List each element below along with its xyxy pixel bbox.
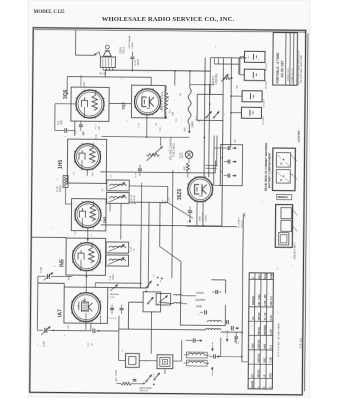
svg-text:200Ω: 200Ω [199,216,201,222]
svg-text:455 KC: 455 KC [257,369,260,377]
svg-text:C-15: C-15 [270,315,273,321]
svg-text:35Z5: 35Z5 [177,188,183,200]
svg-text:SW: SW [237,85,239,88]
svg-text:45 VOLT: 45 VOLT [266,62,268,71]
svg-text:PEAK: PEAK [264,272,267,279]
svg-text:C-16: C-16 [135,172,137,178]
svg-text:100 SIXTH AVE. NEW YORK: 100 SIXTH AVE. NEW YORK [300,55,303,83]
coil L3 [174,294,183,295]
svg-text:PORTABLE - 4 TUBE: PORTABLE - 4 TUBE [276,53,280,84]
svg-text:C-10: C-10 [131,246,133,252]
wire bus battery side [222,58,224,95]
svg-text:C-2A: C-2A [270,329,273,335]
plate cap arrow [94,52,99,56]
svg-text:540 - 1600: 540 - 1600 [258,294,261,306]
capacitor tank3 [226,320,228,324]
wire 1A7 area [94,283,96,288]
bottom right plug marks [234,336,238,338]
shield box IN5 [66,238,106,275]
capacitor tank2 [204,310,206,314]
alignment table [248,273,273,389]
resistor R-6 400 [186,163,189,172]
svg-text:+: + [247,56,249,60]
coil L5 [207,320,221,322]
svg-text:1400 KC: 1400 KC [257,339,260,349]
wire connector feeds [213,135,215,185]
cabinet drawing A [272,148,295,191]
capacitor on switch wire [133,378,137,380]
border frame [30,28,306,395]
volume pot arrow [146,146,162,161]
svg-text:OSC.: OSC. [263,357,266,363]
svg-text:OSC C-2: OSC C-2 [270,296,273,306]
shield box 1H5 [67,139,106,183]
speaker [103,52,111,57]
svg-text:PADDER: PADDER [264,325,267,335]
svg-text:C-14: C-14 [110,275,112,281]
wire T2 to right [129,185,167,187]
title block [273,33,298,86]
tube 3Q5 [76,90,104,118]
wire x222 down [222,121,223,226]
svg-text:1.5 VOLT: 1.5 VOLT [263,115,265,124]
svg-text:OSC: OSC [68,324,70,329]
wire left y284 [38,282,64,284]
safety control rheostat [223,77,231,80]
capacitor right stack [213,354,215,358]
tube 1N5 [75,202,101,228]
svg-text:IA7: IA7 [57,309,63,317]
wire x149 vertical [147,202,150,288]
battery B1 [244,51,265,62]
shield box V5 [131,85,165,118]
svg-text:LEAD: LEAD [83,81,86,87]
capacitor tank1 [215,290,217,294]
wire AVC to frame [32,236,67,238]
svg-text:C-2B: C-2B [270,357,273,363]
capacitor C-16b [186,339,193,341]
svg-text:RANGE: RANGE [252,296,255,305]
svg-text:1600 KC: 1600 KC [257,353,260,363]
svg-text:KC: KC [251,373,254,377]
svg-text:ON LINE: ON LINE [202,212,204,221]
svg-text:FIELD: FIELD [122,47,125,54]
IF transformer T1 box secondary [106,255,129,266]
wire IN5 area [59,275,72,277]
wire x222 tank down [220,338,222,357]
wire y302 switch to coils [129,301,143,303]
capacitor C-7 gang B [38,275,46,277]
label minimax [277,194,292,199]
svg-text:I.F.: I.F. [252,316,255,320]
wire 1H5 area [86,170,88,176]
tube 35Z5 [188,177,213,202]
battery B2 [244,69,265,80]
wire y288 extension [108,287,147,289]
svg-text:SAFETY: SAFETY [212,75,215,84]
trimmer box right [156,293,171,305]
output transformer T4 [100,57,115,68]
heater string resistor [188,88,191,124]
svg-text:B G P S: B G P S [99,73,107,75]
capacitor C-3 pair [110,307,114,309]
antenna coil box [125,353,139,367]
IF transformer T2 box secondary [107,192,130,203]
svg-text:BATTERY COMPARTMENT: BATTERY COMPARTMENT [267,152,271,188]
switch box S2 [197,94,223,120]
svg-text:.5MF: .5MF [61,119,64,125]
pilot light [185,151,193,159]
svg-text:BAND: BAND [251,380,254,387]
svg-text:USE 45 V. BATT.: USE 45 V. BATT. [293,242,296,260]
svg-text:LOOP ANT.: LOOP ANT. [298,130,301,143]
wire x129 vertical [127,302,129,329]
shield box 1N5 [71,199,106,231]
wire battery connects [231,95,242,97]
svg-text:SWITCH: SWITCH [139,390,148,392]
svg-text:C-5 C-3: C-5 C-3 [108,318,116,320]
svg-text:AVC: AVC [67,275,70,280]
svg-text:F: F [253,277,255,279]
svg-text:1.5 VOLT: 1.5 VOLT [263,98,265,107]
capacitor line shunt [188,210,192,212]
tube V5 3Q5b [134,89,160,115]
svg-text:1 MEG: 1 MEG [192,121,194,128]
svg-text:1730 - 455: 1730 - 455 [264,294,267,306]
svg-text:CONTROL: CONTROL [216,73,218,85]
svg-text:MODEL C125: MODEL C125 [288,67,290,81]
box bottom tank [180,262,225,326]
capacitor C-6 [55,129,64,131]
svg-text:No.4 BATT: No.4 BATT [237,216,240,227]
oscillator coil box [157,355,173,369]
svg-text:No.44: No.44 [179,152,181,158]
capacitor C-13 [131,52,133,56]
svg-text:.0001: .0001 [83,130,85,136]
wire right bottom [220,356,242,358]
svg-text:ADJ: ADJ [269,372,272,377]
svg-text:AC-DC SET: AC-DC SET [280,60,284,77]
gang capacitor C-2A [37,329,43,331]
svg-text:3MEG: 3MEG [59,185,62,192]
svg-text:ANT. LOOP: ANT. LOOP [115,370,118,382]
svg-text:ADJ: ADJ [258,274,261,279]
svg-text:·: · [75,86,76,90]
svg-text:MODEL C125: MODEL C125 [34,10,65,15]
svg-text:T1,T2,T3,T4 ADJ. ON (ONE SHEE: T1,T2,T3,T4 ADJ. ON (ONE SHEET) [277,323,280,357]
svg-text:T1 - T2: T1 - T2 [264,312,267,320]
diagonal wiper [167,203,193,219]
svg-text:WHOLESALE RADIO SERVICE CO.: WHOLESALE RADIO SERVICE CO. [297,50,300,85]
svg-text:C-2A: C-2A [43,341,46,347]
IF transformer T1 box primary [106,242,129,253]
frame right double line [305,33,308,391]
svg-text:3Q5: 3Q5 [63,89,69,99]
speckles [121,78,124,81]
band switch S1a [143,292,161,312]
svg-text:FURNISHED: FURNISHED [81,75,83,88]
wire 1N5 area [101,225,222,226]
tube 1H5 [74,144,100,170]
shield box 3Q5 [71,87,109,121]
resistor R-16 horizontal [147,153,160,156]
padder trimmer [110,284,118,291]
wire 35Z5 down [196,201,198,226]
dashed arrow top [211,342,213,350]
coil L6 [205,328,221,330]
wire osc area [150,312,152,354]
wire x160 vertical [159,202,161,246]
svg-text:455 KC: 455 KC [258,312,261,320]
coil 0010 box [186,360,207,366]
svg-text:IN5: IN5 [59,259,65,267]
svg-text:600 KC: 600 KC [258,326,261,334]
svg-text:10M: 10M [173,112,175,116]
wire mid verticals [174,71,176,86]
svg-text:COND.: COND. [132,41,134,48]
battery B3 [242,91,262,102]
capacitor C-8 cluster [79,124,83,126]
dashed pot line [161,92,163,112]
svg-text:PADDER: PADDER [110,293,119,296]
svg-text:.0500: .0500 [196,304,203,308]
coil 0080 box [186,352,207,358]
svg-text:S.P. 411: S.P. 411 [299,337,303,348]
svg-text:B: B [280,179,282,182]
coil L4 [174,302,183,303]
band switch S1b [146,375,151,382]
svg-text:C-15: C-15 [110,297,116,299]
svg-text:OSC: OSC [251,343,254,349]
wire between output tubes [109,102,131,104]
connector pin 1 [227,146,229,150]
wire top right bus [210,57,246,59]
svg-text:·: · [101,117,102,121]
resistor R-12 [165,85,167,89]
capacitor C-1 [90,323,92,330]
svg-text:+45V: +45V [245,212,247,218]
battery bracket [240,56,244,58]
connector pin 3 [227,174,229,178]
svg-text:·: · [105,86,106,90]
wire diag link [172,170,173,278]
shield box 1A7 [64,287,108,323]
dashed arrow bottom [211,367,213,376]
tube IN5 2 [72,243,100,271]
svg-text:R-16 2 MEG.: R-16 2 MEG. [173,142,176,157]
cabinet drawing B [275,205,292,248]
svg-text:.02MF: .02MF [137,58,140,65]
tube 1A7 [71,293,100,322]
wire 3Q5 left [55,103,76,105]
resistor bottom left [116,383,120,385]
wire top-left bus [104,71,106,77]
connector pin 2 [227,160,229,164]
svg-text:ANT.: ANT. [263,343,266,349]
capacitor L6 right [230,326,232,330]
svg-text:B: B [280,163,282,166]
dashed arrow far right [226,331,228,342]
svg-text:WHOLESALE RADIO SERVICE CO., I: WHOLESALE RADIO SERVICE CO., INC. [102,16,235,23]
svg-text:SCHEM. No. 411: SCHEM. No. 411 [292,67,294,83]
transformer terminal lugs [102,67,104,70]
junction dots misc [120,224,122,226]
svg-text:1N5: 1N5 [103,217,107,224]
svg-text:1H5: 1H5 [58,160,64,169]
svg-text:C-2B: C-2B [40,267,43,273]
svg-text:CENTRALAB: CENTRALAB [128,35,131,49]
svg-text:I.F.: I.F. [263,374,266,378]
svg-text:TRIM: TRIM [271,274,273,280]
svg-text:47K: 47K [92,172,94,176]
svg-text:45 V. B: 45 V. B [241,220,243,228]
IF transformer T2 box primary [107,180,130,191]
svg-text:45 VOLT: 45 VOLT [266,80,268,89]
connector box [220,145,242,186]
svg-text:MINIMAX: MINIMAX [278,196,289,199]
capacitor C-16v [138,168,142,170]
svg-text:.00025MF: .00025MF [195,299,206,302]
svg-text:2.2 M: 2.2 M [131,203,136,205]
svg-text:PILOT: PILOT [182,152,184,159]
wire x141 extension [140,240,142,288]
wire bottom mid links [182,295,196,297]
wire C2A to C1 [56,329,91,331]
inner top line [35,30,306,33]
svg-text:·: · [77,116,78,120]
svg-text:.00025: .00025 [196,291,205,295]
battery B4 [241,107,261,118]
svg-text:.1MFD: .1MFD [113,274,115,281]
svg-text:CORD: CORD [206,215,208,222]
